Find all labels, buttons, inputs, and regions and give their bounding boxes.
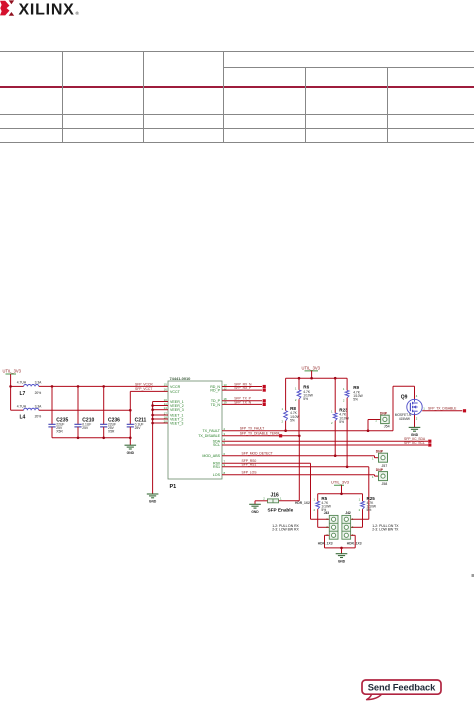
svg-text:20%: 20% — [35, 415, 42, 419]
svg-text:X5R: X5R — [108, 430, 115, 434]
svg-text:5%: 5% — [303, 397, 308, 401]
svg-text:R25: R25 — [367, 496, 376, 501]
svg-text:SFP_IIC_SCL: SFP_IIC_SCL — [404, 441, 425, 445]
svg-text:R6: R6 — [303, 385, 309, 390]
svg-text:DNP: DNP — [376, 449, 384, 453]
svg-text:DNP: DNP — [380, 411, 388, 415]
svg-text:J43: J43 — [324, 511, 330, 515]
svg-text:SFP_TX_N: SFP_TX_N — [234, 400, 251, 404]
svg-text:25V: 25V — [135, 426, 142, 430]
svg-text:J42: J42 — [345, 511, 351, 515]
svg-text:SFP Enable: SFP Enable — [268, 508, 294, 513]
svg-text:3.3A: 3.3A — [35, 405, 43, 409]
svg-text:GND: GND — [251, 510, 259, 514]
svg-text:415MW: 415MW — [399, 417, 410, 421]
svg-text:SFP_VCCT: SFP_VCCT — [135, 387, 152, 391]
svg-text:GND: GND — [411, 433, 419, 437]
svg-text:L7: L7 — [20, 391, 26, 397]
svg-text:L4: L4 — [20, 415, 26, 421]
svg-text:4.7UH: 4.7UH — [17, 381, 27, 385]
svg-text:MOD_ABS: MOD_ABS — [202, 454, 220, 458]
svg-text:SFP_TX_DISABLE: SFP_TX_DISABLE — [428, 407, 457, 411]
svg-text:SFP_TX_FAULT: SFP_TX_FAULT — [240, 427, 264, 431]
svg-text:3.3A: 3.3A — [35, 381, 43, 385]
svg-text:UTIL_3V3: UTIL_3V3 — [302, 365, 321, 370]
svg-text:SFP_VCCR: SFP_VCCR — [135, 382, 153, 386]
svg-text:RS1: RS1 — [213, 465, 220, 469]
svg-text:RD_P: RD_P — [210, 389, 220, 393]
svg-text:SFP_MOD_DETECT: SFP_MOD_DETECT — [242, 452, 273, 456]
svg-text:XILINX: XILINX — [19, 2, 75, 19]
svg-text:LOS: LOS — [213, 473, 221, 477]
svg-text:74441-0010: 74441-0010 — [170, 376, 192, 381]
svg-text:DNP: DNP — [376, 468, 384, 472]
svg-text:J58: J58 — [382, 482, 388, 486]
svg-text:20%: 20% — [35, 391, 42, 395]
svg-text:4.7UH: 4.7UH — [17, 405, 27, 409]
svg-text:25V: 25V — [82, 426, 89, 430]
svg-text:VCCT: VCCT — [170, 390, 181, 394]
svg-text:VEET_3: VEET_3 — [170, 422, 183, 426]
svg-text:Q9: Q9 — [401, 394, 408, 400]
svg-text:16: 16 — [164, 388, 168, 392]
svg-text:5%: 5% — [290, 418, 295, 422]
svg-text:SFP_TX_DISABLE_TERM: SFP_TX_DISABLE_TERM — [240, 432, 280, 436]
svg-text:R5: R5 — [321, 496, 327, 501]
svg-text:HDR_1X2: HDR_1X2 — [295, 501, 310, 505]
svg-text:VEER_3: VEER_3 — [170, 408, 184, 412]
svg-text:SFP_RS1: SFP_RS1 — [242, 463, 257, 467]
svg-text:GND: GND — [127, 451, 135, 455]
svg-text:VCCR: VCCR — [170, 385, 181, 389]
svg-text:5%: 5% — [367, 508, 372, 512]
svg-text:R9: R9 — [353, 385, 359, 390]
svg-text:HDR_1X3: HDR_1X3 — [318, 542, 333, 546]
svg-text:15: 15 — [164, 383, 168, 387]
svg-text:5%: 5% — [353, 398, 358, 402]
svg-text:SCL: SCL — [213, 443, 220, 447]
svg-text:X5R: X5R — [56, 430, 63, 434]
svg-text:SFP_LOS: SFP_LOS — [242, 471, 258, 475]
svg-text:SFP_RX_P: SFP_RX_P — [234, 386, 252, 390]
svg-text:2-3: LOW BW RX: 2-3: LOW BW RX — [272, 528, 299, 532]
svg-text:UTIL_3V3: UTIL_3V3 — [3, 369, 22, 374]
svg-text:P1: P1 — [170, 484, 177, 490]
svg-text:J54: J54 — [384, 424, 390, 428]
svg-text:TD_N: TD_N — [211, 403, 221, 407]
svg-text:TX_DISABLE: TX_DISABLE — [198, 434, 220, 438]
svg-text:Send Feedback: Send Feedback — [368, 682, 436, 693]
svg-text:HDR_1X3: HDR_1X3 — [347, 542, 362, 546]
svg-text:J16: J16 — [271, 492, 280, 498]
svg-text:TX_FAULT: TX_FAULT — [202, 429, 220, 433]
svg-text:5%: 5% — [339, 420, 344, 424]
svg-text:UTIL_3V3: UTIL_3V3 — [331, 479, 350, 484]
svg-text:GND: GND — [149, 500, 157, 504]
svg-text:2-3: LOW BW TX: 2-3: LOW BW TX — [372, 528, 399, 532]
svg-text:GND: GND — [338, 559, 346, 563]
